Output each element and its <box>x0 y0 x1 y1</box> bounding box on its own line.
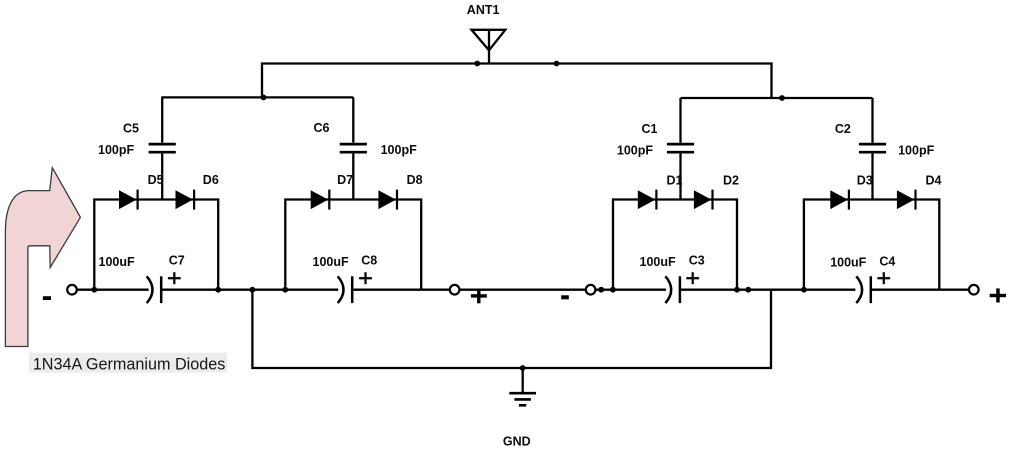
svg-text:D3: D3 <box>857 173 873 187</box>
svg-text:C6: C6 <box>314 121 330 135</box>
svg-text:ANT1: ANT1 <box>467 3 500 17</box>
svg-text:D4: D4 <box>926 173 942 187</box>
svg-text:C5: C5 <box>123 121 139 135</box>
svg-text:100pF: 100pF <box>617 143 653 157</box>
svg-text:D7: D7 <box>337 173 353 187</box>
svg-text:C2: C2 <box>835 122 851 136</box>
svg-text:100uF: 100uF <box>99 255 135 269</box>
svg-text:GND: GND <box>503 435 531 449</box>
svg-text:D6: D6 <box>203 173 219 187</box>
svg-text:100pF: 100pF <box>98 143 134 157</box>
svg-text:100uF: 100uF <box>313 255 349 269</box>
svg-text:D1: D1 <box>667 173 683 187</box>
svg-text:C8: C8 <box>361 253 377 267</box>
svg-text:D8: D8 <box>407 173 423 187</box>
svg-text:D2: D2 <box>723 173 739 187</box>
svg-text:C7: C7 <box>169 254 185 268</box>
svg-text:C1: C1 <box>642 122 658 136</box>
svg-text:C3: C3 <box>689 253 705 267</box>
svg-text:1N34A Germanium Diodes: 1N34A Germanium Diodes <box>33 356 226 374</box>
svg-text:C4: C4 <box>879 255 895 269</box>
svg-text:100pF: 100pF <box>898 143 934 157</box>
svg-text:D5: D5 <box>148 173 164 187</box>
svg-text:100uF: 100uF <box>830 256 866 270</box>
svg-text:100pF: 100pF <box>381 143 417 157</box>
svg-text:100uF: 100uF <box>640 255 676 269</box>
